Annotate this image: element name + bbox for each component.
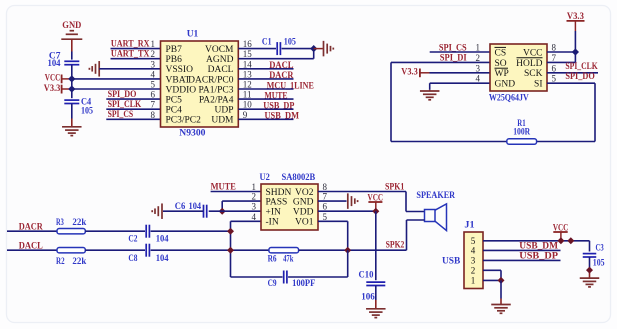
wire flash pin 7 riser bbox=[547, 52, 575, 62]
net label SPI_CLK (left) bbox=[108, 100, 142, 110]
svg-text:1: 1 bbox=[151, 39, 156, 49]
svg-text:7: 7 bbox=[552, 53, 557, 63]
net label MCU_1LINE bbox=[267, 81, 314, 91]
wire U2 pin 4 node bbox=[231, 221, 262, 277]
wire C7 to VCC junction bbox=[71, 65, 73, 79]
svg-text:104: 104 bbox=[156, 254, 169, 264]
svg-text:SPEAKER: SPEAKER bbox=[416, 191, 455, 201]
junction U2 pin2/pin3 bbox=[219, 208, 226, 215]
net label SPI_CLK (flash) bbox=[565, 62, 598, 72]
svg-text:1: 1 bbox=[471, 276, 476, 286]
capacitor C8 bbox=[128, 244, 168, 265]
svg-text:PB6: PB6 bbox=[166, 55, 183, 65]
wire U2 pin 7 bbox=[318, 200, 347, 202]
wire U1 pin 9 bbox=[238, 118, 293, 120]
svg-text:3: 3 bbox=[252, 202, 257, 212]
svg-text:12: 12 bbox=[243, 80, 252, 90]
power port VCC (U2) bbox=[368, 193, 384, 211]
wire J1 pin 3 bbox=[483, 259, 561, 261]
svg-text:4: 4 bbox=[471, 246, 476, 256]
svg-text:104: 104 bbox=[48, 59, 61, 69]
svg-text:-IN: -IN bbox=[266, 218, 279, 228]
net label DACR (U1) bbox=[269, 71, 293, 81]
svg-text:SI: SI bbox=[534, 80, 542, 90]
wire C6 to ground bbox=[163, 210, 203, 212]
ground at C6 bbox=[152, 203, 162, 219]
net label UART_RX bbox=[111, 39, 150, 49]
svg-text:U2: U2 bbox=[260, 173, 271, 183]
power port GND (top) bbox=[61, 21, 82, 52]
svg-text:100PF: 100PF bbox=[292, 279, 315, 289]
ic U1 N9300 bbox=[151, 29, 253, 138]
svg-text:U1: U1 bbox=[187, 29, 199, 39]
wire U1 pin 15 riser bbox=[238, 49, 313, 59]
svg-text:USB: USB bbox=[442, 257, 461, 267]
resistor R2 bbox=[56, 248, 87, 268]
svg-text:3: 3 bbox=[151, 59, 156, 69]
wire U1 pin 16 to C1 bbox=[238, 48, 276, 50]
junction VO1 / R6 / C9 bbox=[344, 247, 351, 254]
wire flash pin 6 bbox=[547, 72, 598, 74]
net label USB_DM (U1) bbox=[265, 112, 300, 122]
wire C9 to VO1 node bbox=[288, 250, 348, 277]
net label DACR (input) bbox=[19, 222, 43, 232]
svg-text:VCC: VCC bbox=[523, 48, 543, 58]
net label SPK1 bbox=[385, 183, 405, 193]
svg-text:VDD: VDD bbox=[293, 208, 314, 218]
wire J1 pin 5 VCC bbox=[483, 241, 590, 252]
wire U1 pin 8 bbox=[106, 118, 160, 120]
connector J1 USB bbox=[442, 221, 483, 289]
svg-text:7: 7 bbox=[151, 100, 156, 110]
ground at U1 pin 16 bbox=[314, 41, 334, 57]
svg-text:W25Q64JV: W25Q64JV bbox=[489, 94, 529, 104]
svg-text:SHDN: SHDN bbox=[266, 188, 292, 198]
junction at C1 ground bbox=[310, 45, 317, 52]
ground below J1 bbox=[491, 305, 511, 314]
svg-text:2: 2 bbox=[252, 192, 257, 202]
net label SPI_DI bbox=[440, 53, 467, 63]
svg-text:C10: C10 bbox=[359, 271, 374, 281]
wire C10 to ground bbox=[375, 286, 377, 309]
resistor R6 bbox=[268, 248, 299, 265]
wire U2 pin 5 riser bbox=[318, 221, 348, 250]
wire flash pin 2 to R1 loop bbox=[391, 62, 507, 141]
svg-text:VO1: VO1 bbox=[295, 218, 314, 228]
wire J1 pin 4 bbox=[483, 249, 561, 251]
svg-text:SPK2: SPK2 bbox=[386, 241, 405, 251]
net label USB_DM (J1) bbox=[519, 242, 558, 252]
svg-text:PC3/PC2: PC3/PC2 bbox=[166, 116, 202, 126]
svg-text:6: 6 bbox=[552, 63, 557, 73]
svg-text:8: 8 bbox=[552, 43, 557, 53]
net label SPI_DO (flash) bbox=[565, 72, 594, 82]
svg-text:SPI_CLK: SPI_CLK bbox=[565, 62, 598, 72]
wire J1 to ground bbox=[500, 280, 502, 304]
svg-text:7: 7 bbox=[323, 192, 328, 202]
svg-text:C8: C8 bbox=[128, 254, 137, 264]
svg-text:C2: C2 bbox=[128, 234, 137, 244]
junction J1 pin1/pin2 bbox=[498, 277, 505, 284]
svg-text:1: 1 bbox=[252, 182, 257, 192]
svg-text:5: 5 bbox=[323, 212, 328, 222]
junction flash pin 8 bbox=[572, 48, 579, 55]
svg-text:+IN: +IN bbox=[266, 208, 282, 218]
svg-text:MCU_1LINE: MCU_1LINE bbox=[267, 81, 314, 91]
wire flash pin 1 bbox=[430, 51, 490, 53]
wire R2 to C8 bbox=[85, 249, 145, 251]
svg-text:105: 105 bbox=[593, 258, 605, 268]
svg-text:VBAT: VBAT bbox=[166, 75, 191, 85]
svg-text:PC5: PC5 bbox=[166, 96, 183, 106]
power port VCC (USB) bbox=[553, 223, 569, 240]
ground at flash pin 4 bbox=[420, 91, 440, 100]
svg-text:3: 3 bbox=[476, 63, 481, 73]
svg-text:SPI_DO: SPI_DO bbox=[565, 72, 594, 82]
svg-text:PB7: PB7 bbox=[166, 45, 183, 55]
wire U1 pin 2 bbox=[111, 58, 161, 60]
svg-text:J1: J1 bbox=[464, 221, 474, 231]
power port V3.3 (flash WP) bbox=[401, 68, 429, 78]
svg-text:5: 5 bbox=[151, 80, 156, 90]
capacitor C6 bbox=[175, 202, 207, 218]
ic U2 SA8002B bbox=[252, 173, 328, 230]
svg-text:11: 11 bbox=[243, 90, 252, 100]
capacitor C7 bbox=[48, 52, 80, 69]
wire V3.3 down to flash pin 8 bbox=[547, 31, 575, 52]
svg-text:R3: R3 bbox=[56, 218, 64, 228]
resistor R1 bbox=[507, 119, 537, 144]
svg-text:5: 5 bbox=[552, 74, 557, 84]
resistor R3 bbox=[56, 218, 87, 234]
svg-text:PC4: PC4 bbox=[166, 106, 183, 116]
svg-text:GND: GND bbox=[495, 80, 516, 90]
junction below C3 bbox=[586, 267, 593, 274]
wire DACR to R3 bbox=[7, 230, 57, 232]
svg-text:DACR/PC0: DACR/PC0 bbox=[188, 75, 234, 85]
svg-text:C1: C1 bbox=[262, 38, 272, 48]
net label MUTE (U1) bbox=[265, 91, 288, 101]
wire U1 pin 10 bbox=[238, 108, 293, 110]
wire J1 pin 1 bbox=[483, 279, 501, 281]
wire speaker lower to SPK2 bbox=[348, 220, 425, 250]
junction VCC / J1 pin 5 bbox=[557, 237, 564, 244]
svg-text:13: 13 bbox=[243, 69, 253, 79]
capacitor C4 bbox=[64, 97, 93, 116]
wire U1 pin 12 bbox=[238, 88, 293, 90]
svg-text:C9: C9 bbox=[268, 279, 277, 289]
svg-text:105: 105 bbox=[284, 38, 296, 48]
wire C8 to R6 bbox=[151, 249, 269, 251]
svg-text:106: 106 bbox=[361, 292, 375, 302]
svg-text:GND: GND bbox=[293, 198, 314, 208]
svg-text:R6: R6 bbox=[268, 254, 277, 264]
svg-text:22k: 22k bbox=[72, 218, 87, 228]
svg-text:4: 4 bbox=[252, 212, 257, 222]
net label USB_DP (U1) bbox=[263, 102, 294, 112]
junction -IN / C2 bbox=[227, 228, 234, 235]
power port V3.3 (top right) bbox=[567, 12, 585, 31]
wire VCC rail to U1 pin 4 bbox=[72, 78, 161, 80]
wire U2 pin 8 to speaker bbox=[318, 192, 425, 212]
svg-text:CS: CS bbox=[495, 48, 507, 58]
svg-text:VOCM: VOCM bbox=[205, 45, 234, 55]
svg-text:PA2/PA4: PA2/PA4 bbox=[199, 96, 234, 106]
net label SPI_CS (left) bbox=[108, 110, 134, 120]
svg-text:1: 1 bbox=[476, 43, 481, 53]
junction U2 pin 6 VCC bbox=[372, 208, 379, 215]
svg-text:2: 2 bbox=[476, 53, 481, 63]
wire U1 pin 11 bbox=[238, 98, 293, 100]
wire flash pin 3 bbox=[430, 72, 491, 74]
speaker LS1 bbox=[416, 191, 455, 231]
ic U3 W25Q64JV bbox=[476, 43, 557, 104]
wire flash pin 4 to ground bbox=[430, 83, 490, 91]
wire U2 pin 1 bbox=[211, 191, 261, 193]
wire U1 pin 13 bbox=[238, 78, 293, 80]
svg-text:C3: C3 bbox=[596, 244, 604, 254]
wire DACL to R2 bbox=[7, 249, 57, 251]
wire R6 to SPK2 node bbox=[299, 249, 348, 251]
ground below C4 bbox=[62, 127, 82, 136]
power port V3.3 (left) bbox=[44, 84, 72, 94]
capacitor C3 bbox=[583, 244, 605, 269]
svg-text:SA8002B: SA8002B bbox=[282, 173, 316, 183]
svg-text:10: 10 bbox=[243, 100, 253, 110]
svg-text:HOLD: HOLD bbox=[516, 59, 543, 69]
capacitor C1 bbox=[262, 38, 296, 55]
wire C2 to -IN node bbox=[151, 230, 231, 232]
wire GND to C7 bbox=[71, 52, 73, 60]
svg-text:104: 104 bbox=[156, 234, 169, 244]
svg-text:16: 16 bbox=[243, 39, 253, 49]
wire U2 pin 3 bbox=[209, 210, 261, 212]
wire C4 to ground bbox=[71, 104, 73, 127]
svg-text:VO2: VO2 bbox=[295, 188, 314, 198]
wire -IN node to C9 bbox=[231, 276, 283, 278]
wire V3.3 rail to U1 pin 5 bbox=[72, 88, 161, 90]
svg-text:V3.3: V3.3 bbox=[44, 84, 61, 94]
svg-text:DACL: DACL bbox=[208, 65, 234, 75]
svg-text:47k: 47k bbox=[283, 254, 294, 264]
net label SPI_CS (flash) bbox=[439, 43, 467, 53]
svg-text:UDM: UDM bbox=[211, 116, 234, 126]
svg-text:9: 9 bbox=[243, 110, 248, 120]
svg-text:PA1/PC3: PA1/PC3 bbox=[198, 85, 233, 95]
svg-text:PASS: PASS bbox=[266, 198, 288, 208]
svg-text:15: 15 bbox=[243, 49, 253, 59]
ground at U1 pin 3 bbox=[89, 61, 99, 77]
svg-text:4: 4 bbox=[151, 69, 156, 79]
svg-text:USB_DP: USB_DP bbox=[263, 102, 294, 112]
capacitor C2 bbox=[128, 225, 168, 245]
svg-text:100R: 100R bbox=[513, 128, 530, 138]
net label USB_DP (J1) bbox=[519, 252, 558, 262]
svg-text:SO: SO bbox=[495, 59, 507, 69]
svg-text:R2: R2 bbox=[56, 257, 65, 267]
wire junctions to C4 bbox=[71, 79, 73, 98]
wire VCC node down to C10 bbox=[375, 211, 377, 280]
svg-text:2: 2 bbox=[151, 49, 156, 59]
svg-text:VCC: VCC bbox=[45, 74, 61, 84]
junction on VBUS wire bbox=[567, 237, 574, 244]
svg-text:4: 4 bbox=[476, 74, 481, 84]
wire U1 pin 3 bbox=[99, 68, 160, 70]
capacitor C10 bbox=[359, 271, 386, 303]
svg-text:SCK: SCK bbox=[524, 69, 543, 79]
wire J1 pin 2 riser bbox=[483, 270, 501, 280]
svg-text:22k: 22k bbox=[72, 257, 87, 267]
svg-text:8: 8 bbox=[323, 182, 328, 192]
svg-text:VDDIO: VDDIO bbox=[166, 85, 197, 95]
svg-text:105: 105 bbox=[81, 107, 93, 117]
net label SPK2 bbox=[386, 241, 405, 251]
svg-text:AGND: AGND bbox=[206, 55, 234, 65]
svg-text:14: 14 bbox=[243, 59, 253, 69]
svg-text:8: 8 bbox=[151, 110, 156, 120]
wire flash pin 5 to R1 bbox=[537, 83, 595, 141]
net label MUTE (U2) bbox=[211, 182, 236, 192]
svg-text:GND: GND bbox=[62, 21, 81, 31]
junction V3.3 rail bbox=[68, 85, 75, 92]
svg-text:UDP: UDP bbox=[214, 106, 233, 116]
svg-text:2: 2 bbox=[471, 266, 476, 276]
wire U1 pin 7 bbox=[106, 108, 160, 110]
svg-text:VSSIO: VSSIO bbox=[166, 65, 194, 75]
wire U2 pin 6 bbox=[318, 210, 376, 212]
svg-text:6: 6 bbox=[151, 90, 156, 100]
svg-text:WP: WP bbox=[495, 69, 509, 79]
wire R3 to C2 bbox=[85, 230, 145, 232]
wire U1 pin 1 bbox=[111, 48, 161, 50]
net label DACL (input) bbox=[19, 241, 43, 251]
wire C1 to ground junction bbox=[282, 48, 314, 50]
wire U1 pin 14 bbox=[238, 68, 293, 70]
junction -IN / R6 bbox=[227, 247, 234, 254]
ground below C3 bbox=[580, 278, 600, 287]
svg-text:6: 6 bbox=[323, 202, 328, 212]
ground below C10 bbox=[366, 309, 386, 318]
net label UART_TX bbox=[111, 49, 150, 59]
svg-text:5: 5 bbox=[471, 236, 476, 246]
power port VCC (left) bbox=[45, 74, 72, 84]
wire U1 pin 6 bbox=[106, 98, 160, 100]
net label DACL (U1) bbox=[269, 61, 293, 71]
ground at U2 pin 7 bbox=[348, 193, 358, 209]
svg-text:V3.3: V3.3 bbox=[401, 68, 418, 78]
capacitor C9 bbox=[268, 271, 316, 290]
net label SPI_DO (left) bbox=[108, 90, 137, 100]
svg-text:N9300: N9300 bbox=[179, 128, 205, 138]
wire U2 pin 2 riser bbox=[222, 201, 261, 211]
svg-text:MUTE: MUTE bbox=[265, 91, 288, 101]
svg-text:3: 3 bbox=[471, 256, 476, 266]
junction VCC rail bbox=[68, 75, 75, 82]
wire C3 to ground bbox=[589, 257, 591, 278]
